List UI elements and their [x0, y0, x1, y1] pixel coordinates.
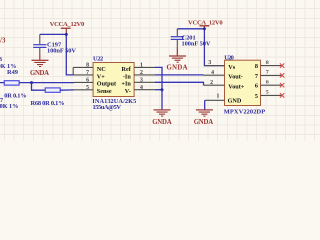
- U22 pin 8 NC stub: [73, 66, 93, 68]
- ground GNDA (below U22): [152, 109, 172, 126]
- U20 pin 3 Vs stub: [204, 65, 224, 67]
- U20 right pin numbers 8 7 6 5: [266, 60, 269, 96]
- U22 left pin numbers 8 7 6 5: [86, 63, 89, 91]
- U22 pin 6 Output stub: [74, 81, 93, 83]
- junction on Output net: [30, 81, 33, 84]
- junction Ref/V-: [161, 88, 164, 91]
- sensor U20 MPXV2202DP body: [224, 54, 265, 115]
- svg-text:8: 8: [255, 63, 258, 70]
- U20 pin 2 Vout+ stub: [204, 84, 225, 86]
- svg-text:5: 5: [266, 90, 269, 96]
- wire VCCA right rail vertical down to U20 pin 3: [204, 29, 224, 66]
- svg-text:NC: NC: [97, 66, 106, 73]
- svg-text:1: 1: [140, 63, 143, 69]
- U22 right pin numbers 1 2 3 4: [140, 63, 143, 91]
- wire VCCA left rail vertical down to U22 pin 7: [66, 34, 74, 75]
- svg-text:GNDA: GNDA: [167, 64, 188, 71]
- svg-text:Vout+: Vout+: [228, 84, 244, 91]
- svg-text:V+: V+: [97, 73, 105, 80]
- svg-text:8: 8: [266, 60, 269, 66]
- ground GNDA (below U20): [194, 109, 214, 126]
- svg-text:7: 7: [86, 70, 89, 76]
- svg-text:5: 5: [86, 85, 89, 91]
- no-connect X pin 7: [280, 73, 284, 77]
- junction at VCCA right rail: [203, 27, 206, 30]
- svg-text:U22: U22: [93, 56, 103, 63]
- svg-text:3: 3: [208, 60, 211, 66]
- svg-text:Ref: Ref: [122, 66, 132, 73]
- U20 pin 1 GND stub: [205, 99, 225, 101]
- svg-text:0R 0.1%: 0R 0.1%: [4, 92, 26, 99]
- U20 pin 4 Vout- stub: [204, 74, 225, 76]
- ground GNDA under C201: [167, 47, 188, 72]
- U22 right pin stubs 1 2 3 4: [134, 66, 155, 68]
- svg-text:6: 6: [86, 78, 89, 84]
- svg-text:GNDA: GNDA: [194, 119, 214, 126]
- wire R68 to U22 pin 5 (Sense): [60, 89, 74, 91]
- svg-text:+In: +In: [121, 81, 131, 88]
- wire U20 pin1 GND down to GNDA: [204, 100, 206, 109]
- svg-text:Sense: Sense: [97, 88, 112, 95]
- svg-text:GND: GND: [228, 97, 242, 104]
- capacitor C197: [33, 34, 76, 54]
- wire U22 pin1 Ref to ground rail: [155, 67, 162, 89]
- svg-text:GNDA: GNDA: [30, 70, 49, 77]
- wire VCCA left rail horizontal to C197: [40, 33, 67, 35]
- svg-text:2: 2: [140, 70, 143, 76]
- wire junction down to GNDA: [161, 90, 163, 110]
- ground GNDA under C197: [30, 54, 49, 78]
- U20 right pin stubs 8 7 6 5: [261, 65, 283, 67]
- IC U22 INA132UA body: [92, 56, 136, 111]
- U22 left pin names: [97, 66, 117, 95]
- svg-text:7: 7: [266, 70, 269, 76]
- svg-text:V-: V-: [125, 88, 131, 95]
- resistor R49: [0, 69, 27, 99]
- U20 left pin numbers 3 4 2 1: [208, 60, 219, 100]
- svg-text:5: 5: [255, 93, 258, 100]
- no-connect X pin 6: [280, 83, 284, 87]
- no-connect X pin 5: [280, 93, 284, 97]
- svg-text:-In: -In: [123, 73, 131, 80]
- wire R49 to junction to U22 pin 6 (Output): [19, 82, 74, 84]
- svg-text:100nF 50V: 100nF 50V: [47, 48, 76, 55]
- svg-text:3: 3: [140, 78, 143, 84]
- svg-text:155uA@5V: 155uA@5V: [93, 104, 122, 111]
- wire U22 pin3 +In jog to U20 pin2: [155, 82, 204, 85]
- junction at VCCA left rail: [65, 33, 68, 36]
- svg-text:R49: R49: [7, 69, 18, 76]
- resistor R68: [31, 88, 65, 107]
- wire U22 pin2 -In to U20 pin4: [155, 74, 204, 76]
- U20 in-box right pin numbers: [255, 63, 258, 100]
- wire tie pin8 to pin7: [72, 67, 74, 75]
- wire VCCA right rail horizontal to C201: [177, 28, 204, 30]
- svg-text:/3: /3: [0, 37, 6, 45]
- svg-text:6: 6: [255, 83, 258, 90]
- U22 pin 7 V+ stub: [73, 74, 93, 76]
- wire junction down to R68: [32, 83, 46, 91]
- svg-text:2: 2: [210, 80, 213, 86]
- svg-text:R68 0R 0.1%: R68 0R 0.1%: [31, 100, 65, 107]
- svg-text:10K 1%: 10K 1%: [0, 103, 18, 110]
- svg-text:Output: Output: [97, 81, 117, 88]
- svg-text:Vs: Vs: [228, 64, 235, 71]
- svg-text:7: 7: [255, 73, 258, 80]
- U22 pin 5 Sense stub: [74, 89, 93, 91]
- svg-text:8: 8: [86, 63, 89, 69]
- svg-text:Vout-: Vout-: [228, 74, 243, 81]
- svg-text:MPXV2202DP: MPXV2202DP: [224, 108, 265, 115]
- svg-text:VCCA_12V0: VCCA_12V0: [50, 21, 85, 28]
- power port VCCA_12V0 (left): [50, 21, 85, 33]
- capacitor C201: [171, 29, 211, 48]
- svg-text:6: 6: [266, 80, 269, 86]
- no-connect X pin 8: [280, 63, 284, 67]
- svg-text:4: 4: [140, 85, 143, 91]
- U20 left pin names: [228, 64, 245, 105]
- U22 right pin names: [121, 66, 131, 95]
- wire U22 pin4 V- to junction: [155, 89, 162, 91]
- svg-text:GNDA: GNDA: [152, 119, 172, 126]
- svg-text:1: 1: [216, 94, 219, 100]
- power port VCCA_12V0 (right): [188, 20, 223, 28]
- svg-text:4: 4: [211, 70, 214, 76]
- svg-text:100nF 50V: 100nF 50V: [182, 41, 211, 48]
